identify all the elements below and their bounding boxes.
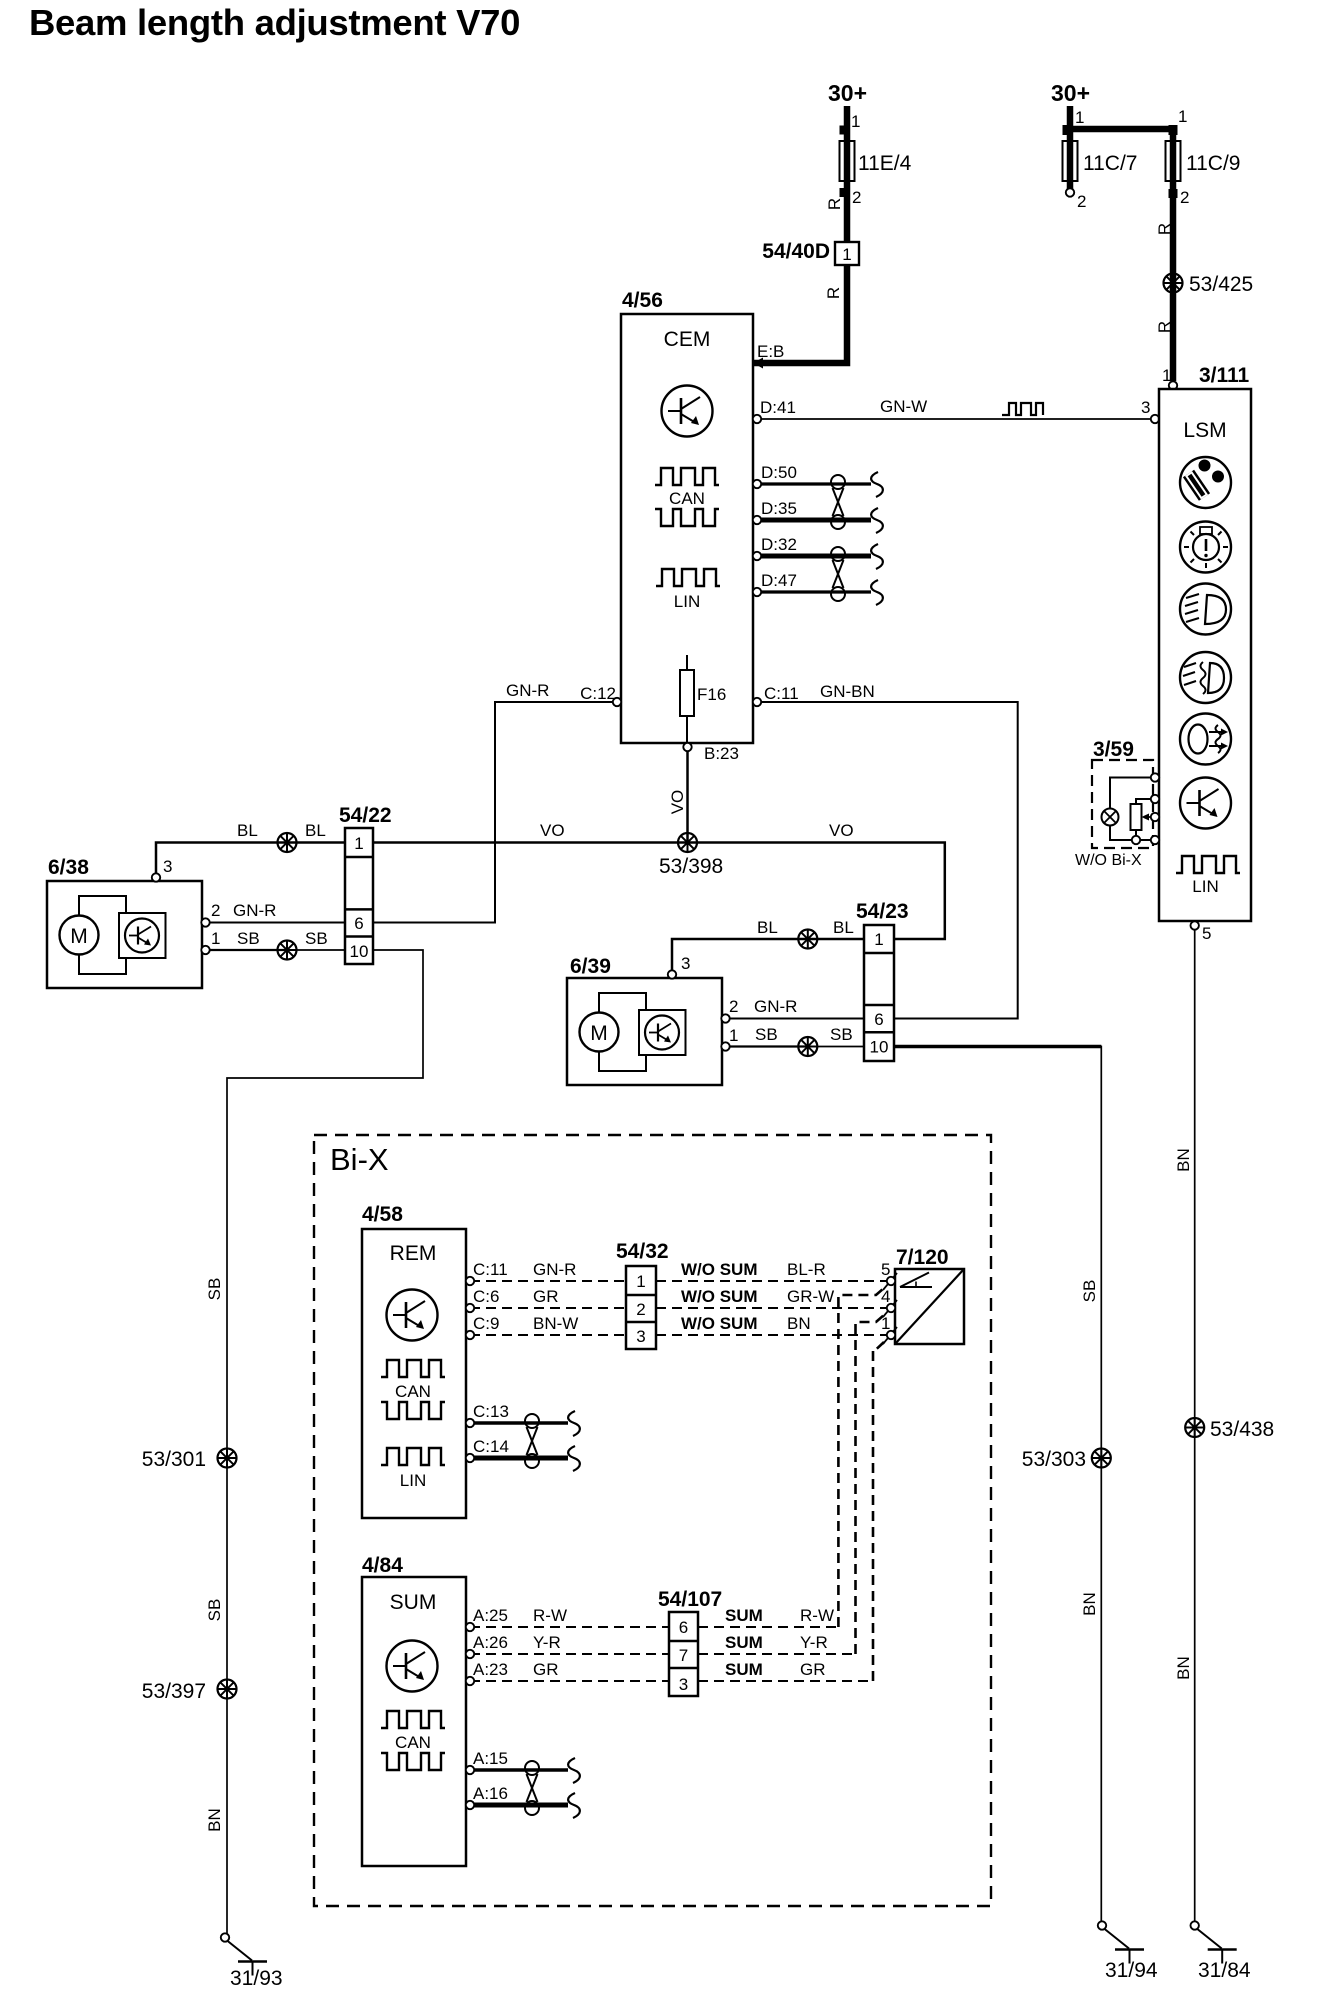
pin 1 tick fuse 11C/9: [1169, 125, 1178, 135]
pin 2 of 6/38: [201, 918, 209, 926]
svg-text:3/111: 3/111: [1199, 364, 1250, 387]
pin 4 slash of 7/120: [883, 1300, 897, 1317]
connector 54/23: [864, 925, 894, 1061]
svg-text:BN: BN: [1174, 1656, 1193, 1680]
svg-text:A:23: A:23: [473, 1660, 508, 1679]
LSM icon light switch: [1180, 522, 1231, 573]
svg-text:3: 3: [1141, 398, 1150, 417]
svg-text:2: 2: [211, 901, 220, 920]
svg-text:GR: GR: [533, 1287, 559, 1306]
pulse symbol on GN-W wire: [1002, 403, 1043, 415]
pin 1 of 6/39: [721, 1042, 729, 1050]
svg-text:4/58: 4/58: [362, 1203, 403, 1226]
svg-text:2: 2: [1077, 192, 1086, 211]
svg-text:2: 2: [852, 188, 861, 207]
svg-text:BL: BL: [237, 821, 258, 840]
LIN waveform CEM: [656, 569, 720, 586]
splice node 53/398: [678, 833, 697, 852]
svg-text:30+: 30+: [828, 80, 867, 106]
transistor icon 6/39: [645, 1016, 679, 1050]
svg-text:BN: BN: [787, 1314, 811, 1333]
arrow into resistor: [1142, 814, 1156, 821]
wire Y-R dashed from SUM A:26 to 54/107 pin 7: [470, 1653, 669, 1655]
transistor icon 6/38: [125, 919, 159, 953]
twisted pair symbol C:13/C:14: [525, 1414, 539, 1468]
CAN waveform REM: [381, 1360, 445, 1377]
wire R-W dashed from SUM A:25 to 54/107 pin 6: [470, 1626, 669, 1628]
svg-text:4/56: 4/56: [622, 289, 663, 312]
svg-text:53/301: 53/301: [142, 1448, 206, 1471]
svg-text:6: 6: [874, 1010, 883, 1029]
splice on SB wire: [278, 941, 297, 960]
wire BL from 6/39 pin 3 to 54/23 pin 1: [672, 939, 864, 971]
svg-text:54/40D: 54/40D: [762, 240, 830, 263]
svg-text:BL-R: BL-R: [787, 1260, 826, 1279]
svg-text:LIN: LIN: [1192, 877, 1218, 896]
svg-text:3: 3: [636, 1327, 645, 1346]
wire GN-R from CEM C:12 to 54/22 pin 6: [373, 702, 617, 923]
wire GR dashed from SUM A:23 to 54/107 pin 3: [470, 1680, 669, 1682]
svg-text:1: 1: [842, 245, 851, 264]
svg-text:BN-W: BN-W: [533, 1314, 578, 1333]
LIN waveform REM: [381, 1448, 445, 1465]
pin 2 tick of fuse 11E/4: [840, 188, 849, 197]
pin 3 of 6/38: [152, 873, 160, 881]
wire GR dashed vertical from 54/107 pin 3 up to 7/120 pin 1: [873, 1342, 884, 1681]
svg-text:11C/7: 11C/7: [1083, 152, 1137, 175]
pin C:11 of CEM: [753, 698, 761, 706]
LIN waveform LSM: [1176, 856, 1240, 873]
wire BN from LSM pin 5 to ground 31/84: [1194, 930, 1196, 1922]
connector 54/22: [345, 828, 373, 964]
pin 3 of LSM: [1151, 415, 1159, 423]
wire Y-R dashed vertical from 54/107 pin 7 up to 7/120 pin 4: [856, 1315, 885, 1654]
svg-text:GR-W: GR-W: [787, 1287, 834, 1306]
svg-text:A:15: A:15: [473, 1749, 508, 1768]
svg-text:53/425: 53/425: [1189, 273, 1253, 296]
svg-text:GN-W: GN-W: [880, 397, 927, 416]
wire break squiggle A:15: [568, 1758, 580, 1783]
wire GR dashed from REM C:6 to 54/32 pin 2: [470, 1307, 626, 1309]
lamp unit 3/59 dashed box: [1092, 760, 1153, 848]
wire D:32: [757, 554, 871, 559]
pin 3 of 6/39: [668, 970, 676, 978]
wire CAN C:14: [470, 1456, 568, 1461]
svg-text:D:35: D:35: [761, 499, 797, 518]
svg-text:R: R: [1155, 223, 1174, 235]
svg-text:Beam length adjustment V70: Beam length adjustment V70: [29, 2, 520, 43]
inner link conductors 6/38: [79, 896, 126, 916]
wire break squiggle D:32: [871, 544, 883, 569]
splice 53/397: [218, 1680, 237, 1699]
svg-text:6: 6: [354, 914, 363, 933]
pin E:B marker: [753, 358, 763, 369]
svg-text:CAN: CAN: [395, 1382, 431, 1401]
resistor in 3/59: [1131, 804, 1142, 830]
transistor icon CEM: [662, 386, 713, 437]
transistor box 6/39: [639, 1010, 686, 1055]
svg-text:1: 1: [1075, 108, 1084, 127]
svg-text:M: M: [70, 925, 88, 948]
svg-text:C:9: C:9: [473, 1314, 499, 1333]
splice on BL wire: [278, 833, 297, 852]
wire GN-R from 6/38 pin 2 to 54/22 pin 6: [206, 922, 345, 924]
motor M circle 6/39: [580, 1013, 619, 1052]
svg-text:W/O Bi-X: W/O Bi-X: [1075, 852, 1142, 869]
wire 30+ feed 2 down to fuse 11C/7 pin 2: [1067, 106, 1074, 189]
svg-text:1: 1: [851, 112, 860, 131]
LSM icon ignition switch: [1180, 457, 1231, 508]
svg-text:SB: SB: [305, 929, 328, 948]
wire SB from 54/22 pin 10 down-left to ground 31/93: [227, 950, 423, 1934]
svg-text:W/O SUM: W/O SUM: [681, 1260, 758, 1279]
ground 31/94: [1098, 1921, 1144, 1963]
svg-text:E:B: E:B: [757, 342, 784, 361]
svg-text:3/59: 3/59: [1093, 738, 1134, 761]
svg-text:R-W: R-W: [533, 1606, 567, 1625]
wire D:50 CAN: [757, 482, 871, 485]
pin 2 of 6/39: [721, 1014, 729, 1022]
wire R-W dashed from 54/107 pin 6 right: [698, 1626, 838, 1628]
ground 31/84: [1191, 1921, 1237, 1963]
svg-text:SUM: SUM: [725, 1633, 763, 1652]
svg-text:SB: SB: [755, 1025, 778, 1044]
bulb lamp in 3/59: [1102, 809, 1119, 826]
svg-text:REM: REM: [390, 1242, 437, 1265]
svg-text:1: 1: [636, 1272, 645, 1291]
svg-text:D:50: D:50: [761, 463, 797, 482]
wire break squiggle D:35: [871, 508, 883, 533]
svg-text:C:11: C:11: [473, 1260, 508, 1279]
svg-text:BL: BL: [833, 918, 854, 937]
splice on SB wire 6/39: [798, 1037, 817, 1056]
headlamp leveling actuator 7/120 box: [895, 1269, 964, 1344]
junction node in 3/59: [1132, 836, 1140, 844]
svg-text:5: 5: [881, 1260, 890, 1279]
wire resistor top to LSM pin: [1136, 799, 1151, 804]
svg-text:1: 1: [729, 1026, 738, 1045]
wire GN-R dashed from REM C:11 to 54/32 pin 1: [470, 1280, 626, 1282]
ECU REM box: [362, 1229, 466, 1518]
wire BN-W dashed from REM C:9 to 54/32 pin 3: [470, 1334, 626, 1336]
svg-text:Bi-X: Bi-X: [330, 1142, 389, 1177]
wire CAN C:13: [470, 1421, 568, 1425]
svg-text:R: R: [825, 198, 844, 210]
wire BN dashed from 54/32 pin 3 to 7/120 pin 1: [656, 1334, 887, 1336]
svg-text:GN-R: GN-R: [754, 997, 797, 1016]
wire break squiggle C:14: [568, 1446, 580, 1471]
svg-text:54/107: 54/107: [658, 1588, 722, 1611]
wire 11C/9 vertical down to LSM pin 1: [1170, 129, 1177, 381]
svg-text:C:12: C:12: [580, 684, 616, 703]
svg-text:C:14: C:14: [473, 1437, 509, 1456]
svg-text:D:41: D:41: [760, 398, 796, 417]
wire BL from 6/38 pin 3 to 54/22 pin 1: [156, 843, 345, 875]
wire break squiggle D:47: [871, 580, 883, 605]
transistor icon REM: [387, 1290, 438, 1341]
svg-text:2: 2: [1180, 188, 1189, 207]
svg-text:11C/9: 11C/9: [1186, 152, 1240, 175]
LSM icon transistor: [1180, 778, 1231, 829]
svg-text:2: 2: [636, 1300, 645, 1319]
wire link 11C/7 to 11C/9: [1067, 126, 1173, 133]
wire break squiggle A:16: [568, 1793, 580, 1818]
wire BL-R dashed from 54/32 pin 1 to 7/120 pin 5: [656, 1280, 887, 1282]
svg-text:W/O SUM: W/O SUM: [681, 1287, 758, 1306]
fuse 11C/7: [1063, 141, 1078, 181]
wire break squiggle D:50: [871, 472, 883, 497]
wire GR-W dashed from 54/32 pin 2 to 7/120 pin 4: [656, 1307, 887, 1309]
svg-text:1: 1: [354, 834, 363, 853]
svg-text:C:11: C:11: [764, 684, 799, 703]
svg-text:1: 1: [874, 930, 883, 949]
wire SB from 54/23 pin 10 right to ground 31/94: [894, 1047, 1101, 1922]
inner link conductors 6/39: [599, 993, 646, 1013]
wire GN-BN from CEM C:11 to 54/23 pin 6: [757, 702, 1018, 1019]
wire GN-W from CEM D:41 to LSM pin 3: [757, 418, 1151, 420]
svg-text:53/303: 53/303: [1022, 1448, 1086, 1471]
wire 30+ feed down to 54/40D and E:B corner into CEM: [753, 106, 847, 363]
svg-text:A:25: A:25: [473, 1606, 508, 1625]
svg-text:5: 5: [1202, 924, 1211, 943]
svg-text:D:47: D:47: [761, 571, 797, 590]
svg-text:SB: SB: [205, 1599, 224, 1622]
svg-text:54/22: 54/22: [339, 804, 392, 827]
svg-text:SB: SB: [237, 929, 260, 948]
CAN waveform SUM: [381, 1711, 445, 1728]
svg-text:10: 10: [870, 1038, 889, 1057]
fuse 11C/9: [1166, 141, 1181, 181]
wire R-W dashed vertical from 54/107 pin 6 up to 7/120 pin 5: [838, 1288, 884, 1627]
wire SB from 6/39 pin 1 to 54/23 pin 10: [726, 1045, 808, 1047]
Bi-X dashed group box: [314, 1135, 991, 1906]
svg-text:54/23: 54/23: [856, 900, 909, 923]
wire CAN A:15: [470, 1768, 568, 1772]
pin C:12 of CEM: [613, 698, 621, 706]
svg-text:GN-R: GN-R: [506, 681, 549, 700]
wire VO main row from 54/22 pin 1 to 54/23 pin 1: [373, 843, 945, 940]
splice 53/301: [218, 1449, 237, 1468]
svg-text:10: 10: [350, 942, 369, 961]
svg-text:BN: BN: [205, 1808, 224, 1832]
pin 2 tick fuse 11C/9: [1169, 189, 1178, 198]
wire break squiggle C:13: [568, 1411, 580, 1436]
transistor icon SUM: [387, 1641, 438, 1692]
svg-text:GN-R: GN-R: [233, 901, 276, 920]
svg-text:VO: VO: [668, 790, 687, 815]
svg-text:Y-R: Y-R: [533, 1633, 561, 1652]
connector 54/107: [669, 1612, 698, 1696]
motor assembly 6/38 box: [47, 881, 202, 988]
svg-text:LIN: LIN: [400, 1471, 426, 1490]
svg-text:C:13: C:13: [473, 1402, 509, 1421]
splice 53/425: [1164, 274, 1183, 293]
svg-text:BN: BN: [1174, 1148, 1193, 1172]
svg-text:6/38: 6/38: [48, 856, 89, 879]
svg-text:30+: 30+: [1051, 80, 1090, 106]
connector 54/32: [626, 1266, 656, 1349]
svg-text:D:32: D:32: [761, 535, 797, 554]
svg-text:VO: VO: [540, 821, 565, 840]
wire GN-R from 6/39 pin 2 to 54/23 pin 6: [726, 1018, 864, 1020]
svg-text:GR: GR: [533, 1660, 559, 1679]
svg-text:6/39: 6/39: [570, 955, 611, 978]
pin 1 tick of fuse 11E/4: [840, 126, 849, 135]
svg-text:B:23: B:23: [704, 744, 739, 763]
svg-text:7: 7: [679, 1646, 688, 1665]
svg-text:LSM: LSM: [1183, 419, 1226, 442]
pin 5 of LSM: [1191, 921, 1199, 929]
twisted pair symbol A:15/A:16: [525, 1761, 539, 1815]
wire D:35 CAN: [757, 518, 871, 523]
svg-text:Y-R: Y-R: [800, 1633, 828, 1652]
wire resistor bottom to junction: [1135, 830, 1137, 836]
svg-text:R: R: [824, 287, 843, 299]
svg-text:2: 2: [729, 997, 738, 1016]
svg-text:53/397: 53/397: [142, 1680, 206, 1703]
fuse F16 inside CEM: [680, 655, 726, 743]
svg-text:CAN: CAN: [395, 1733, 431, 1752]
svg-text:A:16: A:16: [473, 1784, 508, 1803]
pin 1 of 6/38: [201, 946, 209, 954]
svg-text:SUM: SUM: [725, 1606, 763, 1625]
wire D:47: [757, 590, 871, 593]
svg-text:1: 1: [211, 929, 220, 948]
twisted pair symbol D:32/D:47: [831, 547, 845, 601]
svg-text:GR: GR: [800, 1660, 826, 1679]
twisted pair symbol D:50/D:35: [831, 475, 845, 529]
svg-text:GN-BN: GN-BN: [820, 682, 875, 701]
svg-text:BL: BL: [757, 918, 778, 937]
wire bulb to LSM upper pin: [1110, 778, 1151, 810]
pin 2 of fuse 11C/7: [1066, 188, 1074, 196]
splice 53/438: [1185, 1418, 1204, 1437]
motor assembly 6/39 box: [567, 978, 722, 1085]
svg-text:VO: VO: [829, 821, 854, 840]
svg-text:R: R: [1155, 321, 1174, 333]
LSM icon front fog lamp: [1180, 652, 1231, 703]
svg-text:SB: SB: [830, 1025, 853, 1044]
svg-text:C:6: C:6: [473, 1287, 499, 1306]
CAN waveform CEM: [655, 468, 719, 485]
motor M circle 6/38: [60, 916, 99, 955]
svg-text:M: M: [590, 1022, 608, 1045]
svg-text:3: 3: [679, 1675, 688, 1694]
ground 31/93: [221, 1933, 267, 1975]
svg-text:11E/4: 11E/4: [858, 152, 912, 175]
pin D:41 of CEM: [753, 415, 761, 423]
svg-text:W/O SUM: W/O SUM: [681, 1314, 758, 1333]
svg-text:31/93: 31/93: [230, 1967, 283, 1990]
LSM icon rear fog lamp: [1180, 714, 1231, 765]
svg-text:GN-R: GN-R: [533, 1260, 576, 1279]
svg-text:LIN: LIN: [674, 592, 700, 611]
pin 1 slash of 7/120: [883, 1327, 897, 1344]
svg-text:BN: BN: [1080, 1592, 1099, 1616]
svg-text:F16: F16: [697, 685, 726, 704]
wire bulb bottom to LSM lower pin: [1110, 826, 1151, 841]
pins of LSM left edge to 3/59: [1151, 773, 1159, 781]
svg-text:SUM: SUM: [725, 1660, 763, 1679]
svg-text:54/32: 54/32: [616, 1240, 669, 1263]
svg-text:3: 3: [681, 954, 690, 973]
LSM icon headlamp: [1180, 584, 1231, 635]
svg-text:CEM: CEM: [664, 328, 711, 351]
wire Y-R dashed from 54/107 pin 7 right: [698, 1653, 856, 1655]
svg-text:BL: BL: [305, 821, 326, 840]
svg-text:4/84: 4/84: [362, 1554, 403, 1577]
wire SB from 6/38 pin 1 to 54/22 pin 10: [206, 949, 287, 951]
splice 53/303: [1092, 1449, 1111, 1468]
pin 1 tick fuse 11C/7: [1063, 125, 1073, 135]
svg-text:SB: SB: [205, 1278, 224, 1301]
svg-text:CAN: CAN: [669, 489, 705, 508]
connector 54/40D: [835, 242, 859, 265]
pin B:23 of CEM: [683, 743, 691, 751]
svg-text:R-W: R-W: [800, 1606, 834, 1625]
svg-text:53/438: 53/438: [1210, 1418, 1274, 1441]
splice on BL wire 6/39: [798, 930, 817, 949]
svg-text:A:26: A:26: [473, 1633, 508, 1652]
svg-text:31/94: 31/94: [1105, 1959, 1158, 1982]
svg-text:53/398: 53/398: [659, 855, 723, 878]
pin 5 slash of 7/120: [883, 1273, 897, 1290]
wire CAN A:16: [470, 1803, 568, 1808]
svg-text:31/84: 31/84: [1198, 1959, 1251, 1982]
wire VO from CEM B:23 down to node 53/398: [686, 751, 689, 843]
svg-text:3: 3: [163, 857, 172, 876]
transistor box 6/38: [119, 913, 166, 958]
pin 1 of LSM: [1169, 381, 1177, 389]
svg-text:1: 1: [1178, 107, 1187, 126]
svg-text:SB: SB: [1080, 1280, 1099, 1303]
svg-text:6: 6: [679, 1618, 688, 1637]
wire GR dashed from 54/107 pin 3 right: [698, 1680, 873, 1682]
svg-text:SUM: SUM: [390, 1591, 437, 1614]
ECU SUM box: [362, 1577, 466, 1866]
fuse 11E/4: [840, 141, 855, 181]
svg-text:7/120: 7/120: [896, 1246, 949, 1269]
